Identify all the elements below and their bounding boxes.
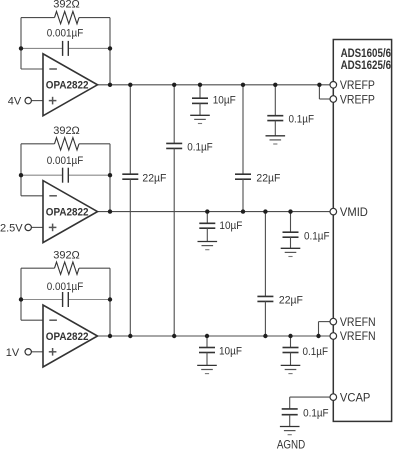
svg-text:ADS1625/6: ADS1625/6: [341, 58, 392, 72]
svg-text:0.001µF: 0.001µF: [47, 155, 84, 167]
svg-text:1V: 1V: [6, 347, 20, 359]
svg-text:0.1µF: 0.1µF: [304, 231, 330, 243]
svg-text:10µF: 10µF: [213, 94, 236, 106]
svg-text:VREFN: VREFN: [340, 315, 376, 329]
svg-text:392Ω: 392Ω: [53, 0, 80, 10]
svg-text:22µF: 22µF: [142, 173, 166, 185]
svg-text:10µF: 10µF: [219, 220, 242, 232]
svg-text:OPA2822: OPA2822: [46, 80, 89, 92]
svg-text:0.1µF: 0.1µF: [187, 141, 213, 153]
svg-text:0.001µF: 0.001µF: [47, 27, 84, 39]
svg-text:392Ω: 392Ω: [53, 249, 80, 261]
svg-text:4V: 4V: [8, 96, 22, 108]
svg-text:392Ω: 392Ω: [53, 125, 80, 137]
svg-text:VREFP: VREFP: [340, 78, 375, 92]
svg-text:0.1µF: 0.1µF: [289, 113, 315, 125]
svg-text:VMID: VMID: [340, 205, 368, 219]
svg-text:OPA2822: OPA2822: [46, 206, 89, 218]
svg-text:VREFN: VREFN: [340, 329, 376, 343]
svg-text:22µF: 22µF: [256, 173, 280, 185]
svg-text:10µF: 10µF: [219, 346, 242, 358]
svg-text:OPA2822: OPA2822: [46, 331, 89, 343]
svg-text:2.5V: 2.5V: [0, 223, 23, 235]
svg-text:22µF: 22µF: [279, 295, 303, 307]
svg-text:0.001µF: 0.001µF: [47, 281, 84, 293]
svg-text:VCAP: VCAP: [340, 390, 371, 404]
svg-text:VREFP: VREFP: [340, 92, 375, 106]
svg-text:AGND: AGND: [277, 438, 306, 451]
svg-text:0.1µF: 0.1µF: [303, 407, 329, 419]
svg-text:0.1µF: 0.1µF: [303, 346, 329, 358]
